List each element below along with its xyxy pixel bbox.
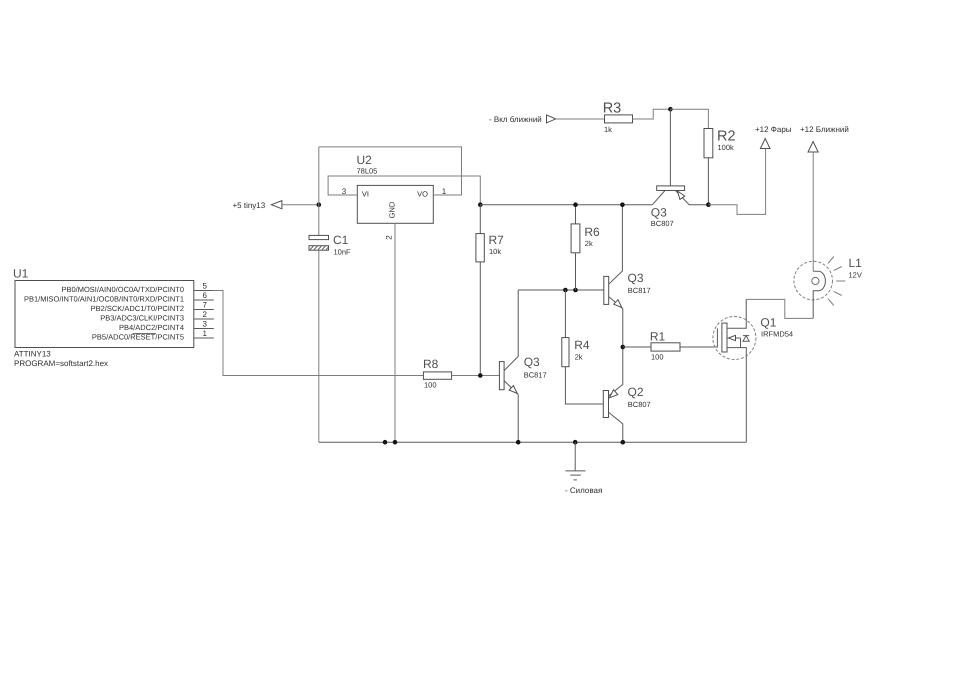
wire U2 pin3 input bracket to +12 rail: [328, 176, 480, 205]
svg-text:78L05: 78L05: [357, 167, 378, 176]
wire +5 to junction: [282, 204, 319, 206]
svg-text:L1: L1: [849, 256, 863, 270]
svg-text:2k: 2k: [575, 353, 583, 362]
svg-text:100: 100: [424, 381, 437, 390]
resistor R3: [603, 101, 633, 135]
node R2 bottom junction: [706, 202, 711, 207]
svg-text:6: 6: [203, 291, 208, 300]
svg-text:PROGRAM=softstart2.hex: PROGRAM=softstart2.hex: [14, 359, 108, 368]
svg-text:BC817: BC817: [524, 371, 547, 380]
U1 pin 3 stub: [194, 320, 214, 329]
U1 pin 2 stub: [194, 310, 214, 319]
svg-text:2: 2: [385, 235, 394, 240]
wire C1 to ground rail: [318, 250, 320, 442]
wire +12 blizhny to lamp: [812, 152, 814, 271]
wire +12 rail: [480, 204, 652, 206]
node R6 top on rail: [573, 202, 578, 207]
svg-text:Q3: Q3: [524, 355, 540, 369]
svg-text:IRFMD54: IRFMD54: [761, 330, 793, 339]
svg-text:R7: R7: [489, 233, 505, 247]
wire R3 to base node: [633, 109, 671, 119]
node rail dot Q3a emitter: [516, 440, 521, 445]
svg-text:12V: 12V: [849, 271, 862, 280]
svg-text:- Вкл ближний: - Вкл ближний: [489, 115, 542, 124]
node rail dot ground: [573, 440, 578, 445]
svg-text:R4: R4: [574, 338, 590, 352]
lamp L1: [794, 256, 862, 318]
wire emitter node to +12 fary arrow: [708, 149, 765, 215]
svg-text:R8: R8: [423, 357, 439, 371]
svg-text:2k: 2k: [585, 239, 593, 248]
MCU U1 ATTINY13 box: [13, 267, 194, 369]
node R3/R2/base junction: [668, 107, 673, 112]
node Q3b collector on rail: [620, 202, 625, 207]
capacitor C1: [309, 233, 351, 257]
wire node to R2 top: [670, 109, 708, 128]
svg-text:GND: GND: [388, 201, 397, 218]
transistor Q2 BC807: [603, 347, 650, 442]
resistor R4: [562, 290, 590, 367]
svg-text:PB1/MISO/INT0/AIN1/OC0B/INT0/R: PB1/MISO/INT0/AIN1/OC0B/INT0/RXD/PCINT1: [24, 295, 184, 304]
svg-text:Q1: Q1: [760, 316, 776, 330]
wire Q1 drain to lamp: [746, 299, 813, 328]
wire input to R3: [556, 118, 605, 120]
transistor Q3 BC817 (middle): [604, 205, 651, 347]
svg-text:+12 Фары: +12 Фары: [755, 125, 792, 134]
node +12 blizhny arrow: [800, 125, 849, 152]
wire ground rail: [319, 441, 747, 443]
svg-text:BC807: BC807: [628, 400, 651, 409]
svg-text:BC807: BC807: [651, 219, 674, 228]
svg-text:C1: C1: [333, 233, 349, 247]
voltage regulator U2 78L05: [357, 153, 434, 223]
svg-text:100k: 100k: [718, 143, 735, 152]
transistor Q3 BC817 (left): [499, 290, 546, 442]
transistor Q3 BC807 (top): [651, 109, 709, 228]
svg-text:Q3: Q3: [628, 271, 644, 285]
svg-text:1k: 1k: [604, 125, 612, 134]
node R4 on base wire: [563, 288, 568, 293]
wire R4 to Q2 base: [565, 367, 603, 404]
svg-text:VO: VO: [417, 190, 428, 199]
svg-text:2: 2: [203, 310, 208, 319]
svg-text:U2: U2: [357, 153, 373, 167]
resistor R6: [571, 205, 600, 290]
node +12 fary arrow: [755, 125, 792, 149]
wire U2 pin2 GND to ground rail: [394, 223, 396, 442]
svg-text:Q2: Q2: [628, 385, 644, 399]
svg-text:5: 5: [203, 282, 208, 291]
svg-text:1: 1: [203, 329, 208, 338]
wire Q3 collector to Q3b base: [518, 289, 604, 291]
svg-text:PB3/ADC3/CLKI/PCINT3: PB3/ADC3/CLKI/PCINT3: [100, 314, 184, 323]
svg-text:BC817: BC817: [628, 286, 651, 295]
svg-text:10k: 10k: [489, 247, 501, 256]
svg-text:PB0/MOSI/AIN0/OC0A/TXD/PCINT0: PB0/MOSI/AIN0/OC0A/TXD/PCINT0: [61, 285, 184, 294]
U1 pin 6 stub: [194, 291, 214, 300]
svg-text:7: 7: [203, 301, 208, 310]
svg-text:10nF: 10nF: [334, 248, 352, 257]
wire +5 vertical to C1: [318, 147, 320, 236]
svg-text:+5 tiny13: +5 tiny13: [233, 201, 266, 210]
resistor R2: [704, 129, 736, 205]
svg-text:Q3: Q3: [651, 206, 667, 220]
node rail dot a: [383, 440, 388, 445]
node R7/R8 base junction: [478, 373, 483, 378]
resistor R7: [476, 205, 504, 376]
node +5 arrow connector: [233, 201, 282, 210]
svg-text:ATTINY13: ATTINY13: [14, 350, 51, 359]
node R6 on base wire: [573, 288, 578, 293]
node rail dot b: [393, 440, 398, 445]
node +12 / R7 junction: [478, 202, 483, 207]
wire U1 pin5 to R8: [214, 291, 424, 376]
U1 pin 5 stub: [194, 282, 214, 291]
svg-text:R1: R1: [650, 330, 666, 344]
resistor R1: [623, 330, 718, 362]
resistor R8: [423, 357, 499, 390]
node rail dot Q2 collector: [621, 440, 626, 445]
svg-text:U1: U1: [13, 267, 29, 281]
svg-text:PB4/ADC2/PCINT4: PB4/ADC2/PCINT4: [119, 323, 184, 332]
svg-text:VI: VI: [362, 190, 369, 199]
MOSFET Q1 IRFMD54: [713, 299, 793, 442]
node input connector: [489, 115, 556, 124]
svg-text:100: 100: [651, 353, 664, 362]
svg-text:R6: R6: [584, 225, 600, 239]
wire U2 pin1 output loop to +5 node: [319, 147, 462, 195]
svg-text:+12 Ближний: +12 Ближний: [800, 125, 849, 134]
svg-text:PB2/SCK/ADC1/T0/PCINT2: PB2/SCK/ADC1/T0/PCINT2: [91, 304, 184, 313]
node junction +5: [317, 202, 322, 207]
node R1 emitter junction: [621, 345, 626, 350]
ground symbol: [565, 442, 602, 495]
svg-text:3: 3: [203, 320, 208, 329]
svg-text:- Силовая: - Силовая: [565, 486, 602, 495]
U1 pin 7 stub: [194, 301, 214, 310]
U1 pin 1 stub: [194, 329, 214, 338]
svg-text:R3: R3: [603, 101, 622, 117]
